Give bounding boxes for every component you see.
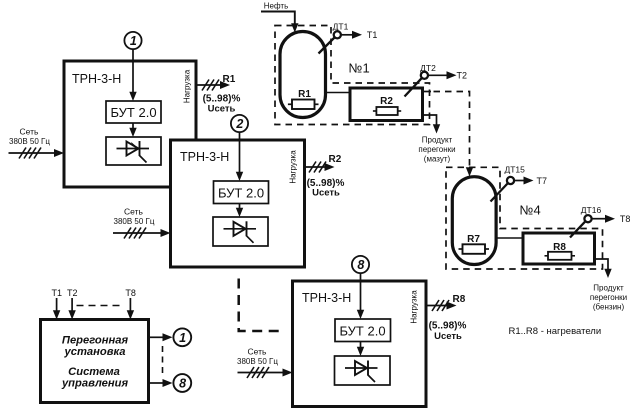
output T2 arrow — [428, 71, 467, 81]
svg-text:T1: T1 — [367, 30, 378, 40]
output R1 arrow (U1) — [196, 74, 241, 115]
svg-text:R8: R8 — [553, 242, 566, 253]
svg-text:1: 1 — [179, 331, 186, 345]
heater R7 — [459, 234, 490, 254]
thyristor VS2 — [213, 217, 268, 246]
svg-text:Продукт: Продукт — [422, 136, 453, 145]
svg-text:Сеть: Сеть — [248, 347, 267, 357]
input T8 — [125, 288, 136, 320]
svg-text:8: 8 — [179, 376, 186, 390]
dashed enclosure No.1 — [275, 26, 430, 125]
dashed continuation wire (blocks 3..7 omitted) — [239, 279, 280, 332]
svg-text:ТРН-3-Н: ТРН-3-Н — [72, 72, 121, 86]
tank vessel 4 — [452, 177, 496, 265]
wire БУТ to thyristor (arrow) — [129, 123, 136, 137]
svg-text:T8: T8 — [125, 288, 136, 298]
node circle 2 — [231, 115, 248, 132]
output T1 arrow — [341, 30, 377, 40]
output R2 arrow (U2) — [305, 154, 345, 199]
dashed enclosure No.4 — [446, 167, 603, 269]
svg-text:(мазут): (мазут) — [424, 155, 451, 164]
sensor ДТ15 — [491, 165, 526, 202]
node circle 8 (control) — [173, 374, 191, 392]
mazut product outlet (solid arrow down) — [418, 115, 455, 164]
block U2 ТРН-3-Н — [171, 140, 305, 267]
svg-text:380В 50 Гц: 380В 50 Гц — [9, 137, 50, 146]
svg-text:перегонки: перегонки — [590, 293, 627, 302]
heater R2 — [373, 96, 401, 115]
svg-text:T8: T8 — [620, 214, 631, 224]
svg-text:8: 8 — [357, 258, 364, 272]
thyristor VS8 — [335, 356, 391, 385]
svg-text:T1: T1 — [52, 288, 63, 298]
svg-text:R2: R2 — [329, 154, 342, 165]
svg-text:управления: управления — [61, 378, 128, 390]
block U8 ТРН-3-Н — [293, 281, 427, 407]
svg-text:№1: №1 — [349, 61, 370, 76]
svg-text:Uсеть: Uсеть — [312, 188, 340, 199]
input T2 — [67, 288, 78, 320]
wire tank4 to R8 box — [496, 237, 523, 239]
svg-text:380В 50 Гц: 380В 50 Гц — [237, 357, 278, 366]
svg-text:Uсеть: Uсеть — [208, 104, 236, 115]
svg-text:БУТ 2.0: БУТ 2.0 — [339, 324, 385, 339]
wire БУТ to thyristor (arrow) — [236, 204, 243, 218]
tank vessel 1 — [280, 32, 326, 118]
svg-text:БУТ 2.0: БУТ 2.0 — [110, 105, 156, 120]
svg-text:1: 1 — [130, 34, 137, 48]
svg-text:R1..R8 - нагреватели: R1..R8 - нагреватели — [509, 326, 602, 337]
svg-text:Сеть: Сеть — [20, 127, 39, 137]
block Перегонная установка / Система управления — [41, 320, 149, 403]
mains input Сеть 380В 50Гц (U2) — [113, 207, 171, 239]
benzin product outlet (solid arrow down) — [590, 259, 627, 312]
thyristor VS1 — [106, 137, 161, 165]
svg-text:ДТ2: ДТ2 — [420, 63, 436, 73]
dashed ellipsis nodes 1..8 — [162, 346, 164, 375]
node circle 8 — [352, 256, 369, 273]
svg-text:T2: T2 — [67, 288, 78, 298]
svg-text:Нагрузка: Нагрузка — [410, 290, 419, 324]
svg-text:(5..98)%: (5..98)% — [429, 321, 467, 332]
svg-text:Перегонная: Перегонная — [62, 335, 129, 347]
svg-text:ТРН-3-Н: ТРН-3-Н — [180, 150, 229, 164]
svg-text:(бензин): (бензин) — [593, 303, 625, 312]
wire БУТ to thyristor (arrow) — [357, 342, 364, 357]
mains input Сеть 380В 50Гц (U1) — [9, 127, 65, 159]
wire circle8 to БУТ (arrow) — [357, 273, 364, 319]
svg-text:ДТ15: ДТ15 — [504, 165, 525, 175]
svg-text:R1: R1 — [223, 74, 236, 85]
svg-text:R8: R8 — [453, 294, 466, 305]
output T7 arrow — [514, 176, 547, 186]
sub-block БУТ 2.0 (U8) — [335, 319, 391, 342]
output arrow to node 8 — [149, 379, 173, 387]
sub-block БУТ 2.0 (U1) — [106, 101, 161, 123]
mains input Сеть 380В 50Гц (U8) — [237, 347, 292, 379]
sub-block БУТ 2.0 (U2) — [214, 181, 269, 204]
oil inlet Нефть — [261, 2, 299, 33]
heater R1 — [288, 89, 319, 109]
svg-text:ДТ1: ДТ1 — [333, 22, 349, 32]
svg-text:R2: R2 — [380, 96, 393, 107]
svg-text:Система: Система — [68, 366, 120, 378]
block U1 ТРН-3-Н — [64, 61, 196, 187]
svg-text:T2: T2 — [457, 71, 468, 81]
svg-text:Сеть: Сеть — [124, 207, 143, 217]
svg-text:Нагрузка: Нагрузка — [183, 69, 192, 103]
svg-text:Продукт: Продукт — [593, 284, 624, 293]
heater R8 — [545, 242, 576, 260]
svg-text:R7: R7 — [467, 234, 480, 245]
output R8 arrow (U8) — [426, 294, 467, 342]
wire tank1 to R2 box — [326, 92, 350, 94]
wire circle1 to БУТ (arrow) — [129, 49, 136, 101]
svg-text:ТРН-3-Н: ТРН-3-Н — [302, 291, 351, 305]
svg-text:№4: №4 — [520, 203, 541, 218]
svg-text:Нагрузка: Нагрузка — [289, 150, 298, 184]
heater unit box R8 — [523, 233, 595, 264]
output T8 arrow — [592, 214, 631, 224]
svg-text:T7: T7 — [537, 176, 548, 186]
svg-text:перегонки: перегонки — [418, 145, 455, 154]
wire circle2 to БУТ (arrow) — [236, 132, 243, 181]
svg-text:Uсеть: Uсеть — [434, 331, 462, 342]
svg-text:установка: установка — [64, 346, 126, 358]
node circle 1 — [124, 32, 141, 49]
svg-text:Нефть: Нефть — [264, 2, 288, 11]
sensor ДТ2 — [405, 63, 437, 97]
svg-text:БУТ 2.0: БУТ 2.0 — [218, 186, 264, 201]
svg-text:2: 2 — [235, 117, 243, 131]
sensor ДТ1 — [319, 22, 349, 54]
sensor ДТ16 — [570, 205, 601, 238]
input T1 — [52, 288, 63, 320]
dashed transfer wire No.1 to No.4 — [423, 92, 474, 177]
svg-text:380В 50 Гц: 380В 50 Гц — [114, 217, 155, 226]
svg-text:R1: R1 — [298, 89, 311, 100]
svg-text:ДТ16: ДТ16 — [581, 205, 602, 215]
heater unit box R2 — [350, 88, 423, 121]
output arrow to node 1 — [149, 333, 173, 341]
dashed ellipsis T2..T8 — [77, 305, 123, 307]
node circle 1 (control) — [173, 328, 191, 346]
